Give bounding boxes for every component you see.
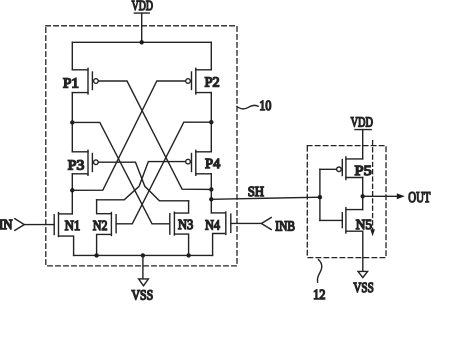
wire VDD2 stem [362, 130, 364, 159]
wire right rail upper [210, 42, 212, 70]
svg-text:VDD: VDD [132, 0, 153, 14]
svg-text:VSS: VSS [353, 281, 373, 296]
transistor N5 [342, 208, 372, 233]
svg-text:VSS: VSS [132, 289, 154, 304]
transistor P3 [68, 150, 98, 175]
svg-text:N5: N5 [356, 218, 372, 233]
wire node B tap to N2 gate [116, 122, 211, 224]
label 12 leader [313, 260, 325, 303]
node N2 source junction [94, 253, 98, 257]
port OUT [363, 190, 431, 206]
svg-text:P5: P5 [355, 164, 372, 179]
node SH tap junction [209, 197, 213, 201]
transistor P5 [337, 157, 372, 180]
node B upper junction [209, 120, 213, 124]
transistor P2 [186, 68, 220, 94]
ground VSS (block 12) [353, 271, 373, 295]
svg-text:10: 10 [259, 99, 271, 114]
node SH wire [211, 185, 320, 200]
wire P4 gate to N2 drain [97, 162, 186, 200]
svg-text:IN: IN [0, 218, 13, 233]
port INB [231, 218, 295, 235]
wire VDD stem [141, 13, 143, 42]
power VDD (block 12) [351, 116, 373, 131]
wire P3 gate to N3 drain [98, 162, 188, 201]
wire P2 gate cross-couple to node A [72, 81, 185, 190]
transistor P4 [186, 150, 221, 175]
node VSS tap junction [141, 253, 145, 257]
wire right rail mid [210, 93, 212, 152]
svg-text:P3: P3 [68, 159, 85, 174]
transistor N3 [170, 201, 193, 256]
node inverter output junction [361, 194, 365, 198]
node N3 source junction [186, 253, 190, 257]
svg-text:OUT: OUT [408, 190, 430, 206]
svg-text:N2: N2 [93, 219, 108, 234]
wire left rail mid [71, 93, 73, 152]
wire inverter input trunk [320, 169, 342, 220]
transistor N2 [93, 200, 116, 256]
transistor P1 [63, 68, 98, 94]
wire VDD top rail [72, 41, 211, 43]
port IN [0, 218, 54, 233]
svg-text:12: 12 [313, 288, 325, 303]
wire right rail lower [210, 174, 212, 213]
wire left rail upper [71, 42, 73, 70]
svg-text:N1: N1 [65, 219, 81, 234]
node A lower junction [70, 188, 74, 192]
node A upper junction [70, 120, 74, 124]
svg-text:P1: P1 [63, 76, 79, 91]
wire inverter output trunk [362, 178, 364, 210]
block 10 dashed box [46, 26, 237, 266]
wire node A tap to N3 gate [72, 122, 170, 223]
svg-text:N4: N4 [205, 218, 220, 233]
node B lower junction [209, 187, 213, 191]
power VDD (block 10) [132, 0, 153, 14]
transistor N4 [205, 212, 231, 255]
block 12 dashed box [307, 146, 386, 258]
node VDD rail junction [140, 40, 144, 44]
svg-text:INB: INB [275, 219, 295, 234]
wire left rail lower [71, 174, 73, 214]
wire bottom rail [74, 254, 213, 256]
wire P1 gate cross-couple to node B [98, 81, 211, 189]
svg-text:SH: SH [248, 185, 264, 200]
ground VSS (block 10) [132, 255, 154, 303]
label 10 leader [237, 99, 271, 114]
svg-text:P2: P2 [205, 76, 220, 91]
wire N5 source to VSS [362, 231, 364, 271]
transistor N1 [54, 213, 80, 256]
svg-text:VDD: VDD [351, 116, 373, 131]
current flow dashed arrow [370, 141, 375, 237]
svg-text:P4: P4 [205, 157, 220, 172]
svg-text:N3: N3 [178, 218, 193, 233]
node inverter input junction [318, 195, 322, 199]
